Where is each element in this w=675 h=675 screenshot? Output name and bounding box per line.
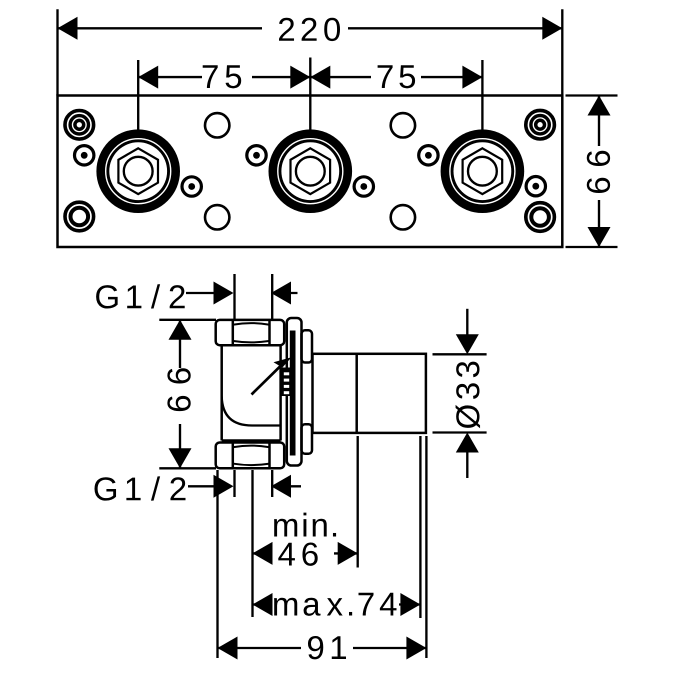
dimension G1/2 top bbox=[186, 274, 298, 320]
dimension 220 bbox=[58, 9, 563, 95]
extension line sleeve end bbox=[425, 436, 427, 658]
label 66 right rotated bbox=[587, 151, 610, 193]
label 66 left rotated bbox=[167, 368, 190, 411]
mounting plate outline bbox=[58, 96, 563, 248]
screw hole valve2 upper-left bbox=[247, 146, 266, 165]
valve 3 front bbox=[441, 129, 525, 213]
plate tab bottom bbox=[302, 424, 313, 454]
label G1/2 bottom bbox=[94, 476, 185, 500]
dimension 75 left bbox=[138, 58, 310, 130]
bottom hex nut side bbox=[216, 443, 285, 469]
dimension 66 left bbox=[159, 320, 216, 469]
screw hole valve1 lower-right bbox=[182, 177, 201, 196]
valve 1 front bbox=[96, 129, 180, 213]
dimension 46 bbox=[253, 538, 358, 569]
plain hole 2 bottom bbox=[391, 205, 415, 229]
top hex nut side bbox=[216, 320, 285, 345]
dimension G1/2 bottom bbox=[188, 470, 301, 497]
plain hole 2 top bbox=[391, 113, 415, 137]
label 46 bbox=[278, 542, 317, 565]
grommet hole bottom-right bbox=[526, 203, 555, 232]
screw hole valve3 lower-right bbox=[526, 177, 545, 196]
dimension max.74 bbox=[253, 589, 421, 620]
protective sleeve pipe bbox=[313, 354, 426, 433]
wall mounting plate side bbox=[287, 318, 302, 466]
dimension 75 right bbox=[310, 60, 482, 130]
label 75 left bbox=[203, 65, 241, 88]
extension line valve axis bbox=[251, 470, 253, 617]
label G1/2 top bbox=[96, 284, 185, 308]
cartridge screw detail bbox=[282, 368, 296, 397]
label max.74 bbox=[274, 593, 396, 616]
screw hole valve2 lower-right bbox=[354, 177, 373, 196]
extension line wall max bbox=[419, 436, 421, 618]
dimension Ø33 bbox=[433, 309, 487, 478]
grommet hole top-left bbox=[65, 111, 94, 140]
grommet hole top-right bbox=[526, 110, 555, 139]
valve body side bbox=[222, 345, 281, 440]
screw hole valve3 upper-left bbox=[419, 146, 438, 165]
plain hole 1 bottom bbox=[205, 205, 229, 229]
plate tab top bbox=[302, 330, 313, 362]
label 91 bbox=[308, 636, 346, 659]
dimension 91 bbox=[218, 632, 427, 663]
grommet hole bottom-left bbox=[65, 202, 94, 231]
label diameter 33 rotated bbox=[456, 362, 480, 429]
label 220 bbox=[279, 18, 340, 41]
valve 2 front bbox=[269, 129, 353, 213]
extension line sleeve joint bbox=[357, 436, 359, 568]
label 75 right bbox=[378, 65, 415, 88]
dimension 66 right bbox=[566, 96, 618, 248]
screw hole valve1 upper-left bbox=[75, 146, 94, 165]
extension line valve left bbox=[216, 470, 218, 658]
plain hole 1 top bbox=[205, 113, 229, 137]
flow arrow inside body bbox=[252, 357, 292, 394]
label min. bbox=[274, 513, 336, 537]
